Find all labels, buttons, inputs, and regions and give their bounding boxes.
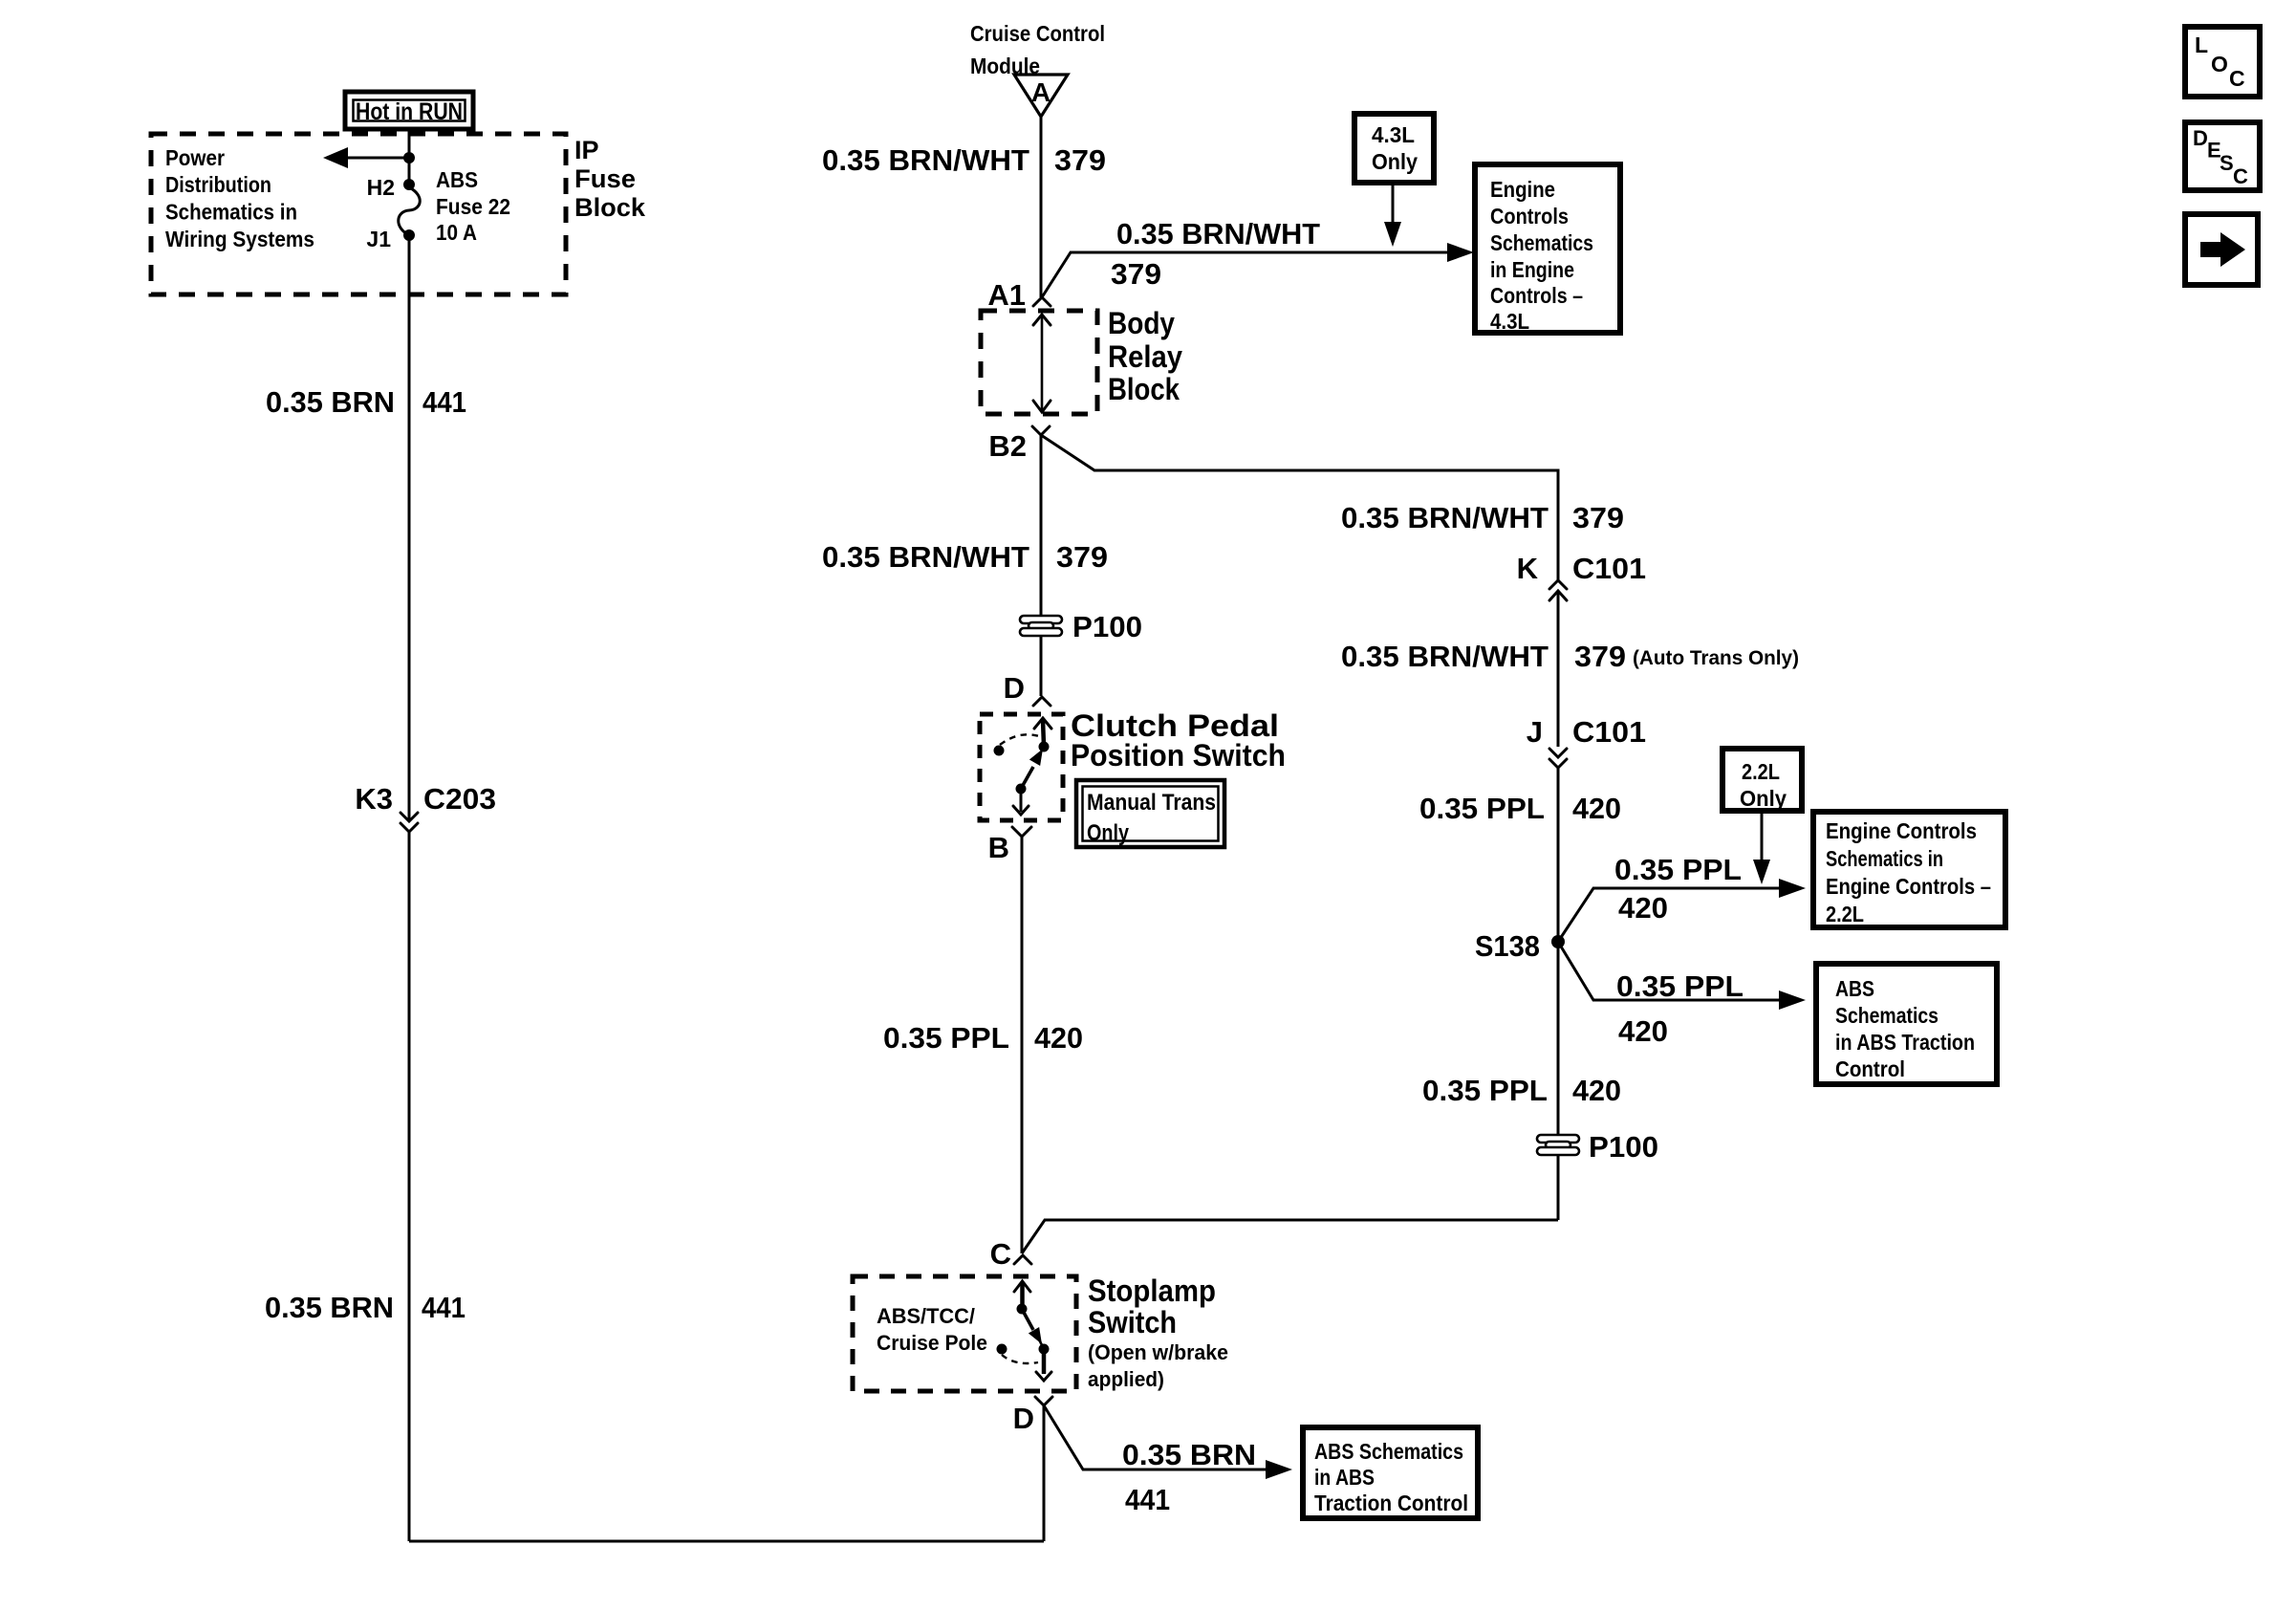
node A1 bbox=[987, 278, 1051, 312]
pivot contact bbox=[1039, 1344, 1050, 1355]
svg-text:420: 420 bbox=[1572, 1074, 1621, 1107]
label 0.35 PPL 420 (branch 2.2L) bbox=[1614, 853, 1742, 925]
svg-text:441: 441 bbox=[1125, 1483, 1170, 1516]
svg-text:ABS/TCC/: ABS/TCC/ bbox=[877, 1304, 975, 1328]
svg-text:B: B bbox=[988, 831, 1009, 864]
junction node bbox=[403, 152, 415, 163]
svg-text:379: 379 bbox=[1054, 143, 1106, 177]
svg-text:379: 379 bbox=[1056, 540, 1108, 574]
DESC icon box bbox=[2185, 122, 2260, 190]
wire arrow to Power Distribution bbox=[344, 157, 409, 160]
IP Fuse Block dashed box bbox=[151, 134, 566, 294]
svg-text:379: 379 bbox=[1572, 501, 1624, 534]
svg-text:Only: Only bbox=[1740, 786, 1787, 811]
Engine Controls 2.2L box bbox=[1813, 812, 2005, 927]
svg-text:in Engine: in Engine bbox=[1490, 257, 1574, 282]
node B2 bbox=[988, 426, 1050, 463]
svg-text:420: 420 bbox=[1572, 792, 1621, 825]
svg-text:Fuse 22: Fuse 22 bbox=[436, 194, 510, 219]
svg-text:4.3L: 4.3L bbox=[1372, 122, 1415, 147]
Hot in RUN box bbox=[345, 92, 473, 129]
svg-text:Engine Controls: Engine Controls bbox=[1826, 818, 1977, 843]
svg-text:H2: H2 bbox=[367, 175, 395, 200]
svg-text:S138: S138 bbox=[1475, 929, 1540, 963]
label 0.35 BRN 441 (lower) bbox=[265, 1291, 466, 1324]
svg-text:C: C bbox=[2229, 66, 2245, 91]
svg-text:Fuse: Fuse bbox=[574, 164, 636, 193]
svg-text:Manual Trans: Manual Trans bbox=[1087, 790, 1216, 816]
svg-text:in ABS: in ABS bbox=[1314, 1465, 1375, 1490]
body relay block internal wire with arrows bbox=[1033, 315, 1051, 412]
label IP Fuse Block bbox=[574, 136, 646, 222]
label 0.35 BRN/WHT 379 (branch) bbox=[1111, 217, 1320, 291]
blade with arrowhead bbox=[1022, 1309, 1033, 1330]
cruise control module triangle pin A bbox=[1014, 75, 1068, 117]
wire branch from B2 to right riser (upper) bbox=[1041, 435, 1558, 580]
node B bbox=[988, 827, 1031, 864]
svg-text:Controls –: Controls – bbox=[1490, 283, 1583, 308]
clutch switch internals bbox=[994, 718, 1052, 815]
svg-text:Stoplamp: Stoplamp bbox=[1088, 1274, 1216, 1308]
label 0.35 BRN/WHT 379 (right riser top) bbox=[1341, 501, 1624, 534]
ABS Schematics in ABS Traction Control box (right) bbox=[1816, 964, 1997, 1084]
svg-text:Cruise Control: Cruise Control bbox=[970, 21, 1105, 46]
Body Relay Block dashed box bbox=[981, 311, 1097, 414]
label Body Relay Block bbox=[1108, 306, 1182, 406]
wire from Hot in RUN down to H2 bbox=[408, 129, 411, 185]
svg-text:0.35 PPL: 0.35 PPL bbox=[883, 1021, 1009, 1055]
connector J C101 bbox=[1527, 715, 1646, 768]
svg-text:Only: Only bbox=[1372, 149, 1418, 174]
svg-text:0.35 BRN/WHT: 0.35 BRN/WHT bbox=[822, 540, 1029, 574]
LOC icon box bbox=[2185, 27, 2260, 97]
svg-text:O: O bbox=[2211, 52, 2228, 76]
svg-text:Only: Only bbox=[1087, 820, 1129, 846]
label ABS/TCC/ Cruise Pole bbox=[877, 1304, 987, 1355]
upper contact bbox=[1017, 1304, 1028, 1315]
svg-text:0.35 BRN: 0.35 BRN bbox=[265, 1291, 394, 1324]
svg-text:0.35 BRN/WHT: 0.35 BRN/WHT bbox=[1341, 501, 1549, 534]
svg-text:(Auto Trans Only): (Auto Trans Only) bbox=[1633, 646, 1799, 669]
arrow from 4.3L Only down bbox=[1384, 183, 1401, 247]
open contact bbox=[994, 746, 1005, 756]
svg-text:C: C bbox=[990, 1237, 1011, 1271]
connector K C101 bbox=[1517, 552, 1646, 600]
node D (stoplamp) bbox=[1013, 1397, 1052, 1435]
wire from module A down to A1 bbox=[1040, 117, 1043, 297]
node S138 bbox=[1475, 929, 1565, 963]
svg-text:A: A bbox=[1031, 77, 1051, 107]
ABS Schematics in ABS Traction Control box (bottom) bbox=[1303, 1427, 1478, 1518]
svg-text:Power: Power bbox=[165, 145, 225, 170]
pivot contact bbox=[1039, 742, 1050, 752]
svg-text:441: 441 bbox=[422, 1291, 466, 1324]
wire from D down to bottom bbox=[1043, 1405, 1046, 1541]
Stoplamp Switch dashed box bbox=[853, 1276, 1076, 1391]
wire right riser J to C corner bbox=[1557, 768, 1560, 1220]
label 0.35 PPL 420 (branch ABS) bbox=[1616, 969, 1744, 1048]
svg-text:B2: B2 bbox=[988, 429, 1027, 463]
stoplamp switch internals bbox=[997, 1281, 1052, 1381]
label 0.35 BRN 441 (branch) bbox=[1122, 1438, 1256, 1516]
svg-text:P100: P100 bbox=[1589, 1130, 1658, 1164]
label 0.35 PPL 420 (right lower) bbox=[1422, 1074, 1621, 1107]
svg-text:2.2L: 2.2L bbox=[1742, 759, 1780, 784]
connector P100 grommet (right wire) bbox=[1537, 1130, 1658, 1164]
travel arc dashed bbox=[1002, 1355, 1038, 1363]
fuse ABS Fuse 22 10 A (S-curve element) bbox=[399, 187, 421, 235]
svg-text:0.35 PPL: 0.35 PPL bbox=[1419, 792, 1545, 825]
label Cruise Control Module bbox=[970, 21, 1105, 78]
svg-text:Control: Control bbox=[1835, 1056, 1905, 1081]
pin J1 bbox=[403, 229, 415, 241]
svg-text:Body: Body bbox=[1108, 306, 1175, 340]
label 0.35 BRN 441 (upper) bbox=[266, 385, 466, 419]
svg-text:Wiring Systems: Wiring Systems bbox=[165, 227, 314, 251]
4.3L Only box bbox=[1354, 114, 1434, 183]
svg-text:0.35 PPL: 0.35 PPL bbox=[1616, 969, 1744, 1003]
svg-text:ABS Schematics: ABS Schematics bbox=[1314, 1439, 1463, 1464]
svg-text:Hot in RUN: Hot in RUN bbox=[356, 98, 463, 125]
Manual Trans Only box bbox=[1076, 780, 1224, 847]
svg-text:ABS: ABS bbox=[436, 167, 478, 192]
exit arrow down bbox=[1020, 789, 1023, 812]
svg-text:420: 420 bbox=[1618, 891, 1668, 925]
Engine Controls 4.3L box bbox=[1475, 164, 1620, 334]
arrow icon box bbox=[2185, 214, 2258, 285]
entry arrow up bbox=[1034, 718, 1051, 729]
wire branch S138 to Engine Controls 2.2L bbox=[1558, 879, 1806, 942]
label Power Distribution Schematics in Wiring Systems bbox=[165, 145, 314, 251]
svg-text:J: J bbox=[1527, 715, 1543, 749]
svg-text:441: 441 bbox=[422, 385, 466, 419]
svg-text:379: 379 bbox=[1574, 640, 1626, 673]
svg-text:Schematics in: Schematics in bbox=[1826, 846, 1943, 871]
wire middle down from B2 to D bbox=[1040, 435, 1043, 696]
label 0.35 BRN/WHT 379 (top) bbox=[822, 143, 1106, 177]
svg-text:A1: A1 bbox=[987, 278, 1026, 312]
svg-text:Traction Control: Traction Control bbox=[1314, 1491, 1468, 1515]
svg-text:Controls: Controls bbox=[1490, 204, 1569, 229]
svg-text:10 A: 10 A bbox=[436, 220, 477, 245]
svg-text:2.2L: 2.2L bbox=[1826, 902, 1864, 926]
svg-text:379: 379 bbox=[1111, 257, 1161, 291]
svg-text:Schematics: Schematics bbox=[1490, 230, 1593, 255]
svg-text:IP: IP bbox=[574, 136, 599, 164]
node C bbox=[990, 1237, 1031, 1271]
svg-text:420: 420 bbox=[1034, 1021, 1083, 1055]
wire right riser K to J bbox=[1557, 591, 1560, 747]
label 0.35 BRN/WHT 379 (Auto Trans Only) bbox=[1341, 640, 1799, 673]
svg-text:Block: Block bbox=[1108, 372, 1180, 406]
svg-text:D: D bbox=[1004, 671, 1025, 705]
svg-text:0.35 PPL: 0.35 PPL bbox=[1614, 853, 1742, 886]
svg-text:ABS: ABS bbox=[1835, 976, 1874, 1001]
svg-text:C203: C203 bbox=[423, 782, 496, 816]
svg-text:J1: J1 bbox=[366, 227, 391, 251]
lower contact bbox=[1016, 784, 1027, 795]
svg-text:Schematics: Schematics bbox=[1835, 1003, 1939, 1028]
svg-text:D: D bbox=[1013, 1402, 1034, 1435]
svg-text:0.35 BRN/WHT: 0.35 BRN/WHT bbox=[1341, 640, 1549, 673]
wire left vertical 441 from J1 to bottom bbox=[408, 235, 411, 820]
label Stoplamp Switch (Open w/brake applied) bbox=[1088, 1274, 1228, 1391]
label 0.35 BRN/WHT 379 (middle segment) bbox=[822, 540, 1108, 574]
connector P100 grommet (middle wire) bbox=[1020, 610, 1142, 643]
svg-text:K3: K3 bbox=[355, 782, 393, 816]
svg-text:0.35 BRN/WHT: 0.35 BRN/WHT bbox=[1116, 217, 1320, 250]
2.2L Only box bbox=[1722, 749, 1802, 811]
svg-text:D: D bbox=[2193, 126, 2208, 150]
blade with arrowhead bbox=[1021, 767, 1033, 789]
arrow from 2.2L Only down bbox=[1753, 811, 1770, 884]
svg-text:Block: Block bbox=[574, 193, 646, 222]
svg-text:Relay: Relay bbox=[1108, 339, 1182, 374]
svg-text:Engine Controls –: Engine Controls – bbox=[1826, 874, 1991, 899]
svg-text:C101: C101 bbox=[1572, 715, 1646, 749]
wire from riser corner to node C bbox=[1022, 1220, 1558, 1253]
wire branch S138 to ABS Schematics bbox=[1558, 942, 1806, 1010]
svg-text:0.35 PPL: 0.35 PPL bbox=[1422, 1074, 1548, 1107]
label 0.35 PPL 420 (middle) bbox=[883, 1021, 1083, 1055]
svg-text:Schematics in: Schematics in bbox=[165, 200, 297, 225]
wire branch from D to ABS Schematics bbox=[1044, 1405, 1292, 1479]
label Clutch Pedal Position Switch bbox=[1071, 708, 1286, 773]
svg-text:0.35 BRN/WHT: 0.35 BRN/WHT bbox=[822, 143, 1029, 177]
svg-text:4.3L: 4.3L bbox=[1490, 309, 1529, 334]
node D (clutch) bbox=[1004, 671, 1051, 706]
travel arc dashed bbox=[1000, 734, 1039, 745]
wire branch from A1 to Engine Controls 4.3L bbox=[1042, 243, 1474, 297]
Clutch Pedal Position Switch dashed box bbox=[980, 714, 1063, 820]
svg-text:Cruise Pole: Cruise Pole bbox=[877, 1331, 987, 1355]
svg-text:0.35 BRN: 0.35 BRN bbox=[266, 385, 395, 419]
wire bottom horizontal bbox=[409, 1540, 1044, 1543]
svg-text:0.35 BRN: 0.35 BRN bbox=[1122, 1438, 1256, 1471]
svg-text:C: C bbox=[2233, 164, 2248, 188]
svg-text:420: 420 bbox=[1618, 1014, 1668, 1048]
svg-text:Position Switch: Position Switch bbox=[1071, 738, 1286, 773]
svg-text:C101: C101 bbox=[1572, 552, 1646, 585]
entry arrow up bbox=[1014, 1281, 1030, 1292]
svg-text:P100: P100 bbox=[1072, 610, 1142, 643]
svg-text:L: L bbox=[2195, 33, 2208, 57]
connector K3 C203 bbox=[355, 782, 496, 832]
svg-text:Switch: Switch bbox=[1088, 1305, 1177, 1339]
svg-text:in ABS Traction: in ABS Traction bbox=[1835, 1030, 1975, 1055]
open contact bbox=[997, 1344, 1007, 1355]
label 0.35 PPL 420 (right upper) bbox=[1419, 792, 1621, 825]
svg-text:Engine: Engine bbox=[1490, 177, 1555, 202]
wire from B down to C bbox=[1021, 837, 1024, 1253]
pin H2 bbox=[403, 179, 415, 190]
exit arrow down bbox=[1042, 1351, 1047, 1374]
svg-text:applied): applied) bbox=[1088, 1367, 1164, 1391]
svg-text:K: K bbox=[1517, 552, 1539, 585]
svg-text:(Open w/brake: (Open w/brake bbox=[1088, 1340, 1228, 1364]
svg-text:S: S bbox=[2220, 151, 2234, 175]
svg-text:Distribution: Distribution bbox=[165, 172, 271, 197]
